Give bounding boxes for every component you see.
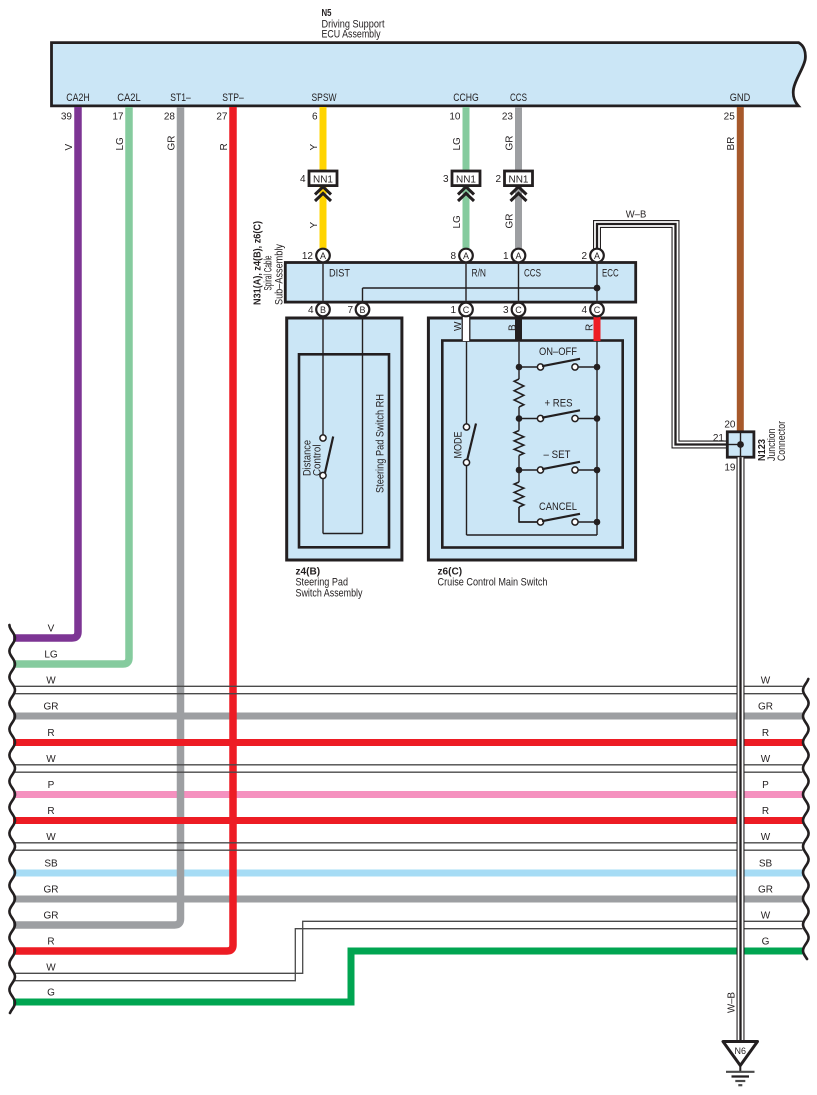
svg-text:8: 8 [450,251,456,262]
svg-text:4: 4 [300,174,306,185]
svg-text:Switch Assembly: Switch Assembly [296,588,363,600]
svg-text:2: 2 [581,251,587,262]
svg-text:N5: N5 [322,7,332,19]
svg-text:W: W [761,832,771,843]
svg-text:W: W [761,754,771,765]
svg-text:NN1: NN1 [313,174,333,185]
svg-text:W: W [46,963,56,974]
svg-text:W: W [46,754,56,765]
svg-text:1: 1 [503,251,509,262]
svg-text:GR: GR [44,911,59,922]
svg-text:LG: LG [452,215,463,229]
svg-text:W: W [46,832,56,843]
svg-text:25: 25 [724,112,736,123]
svg-text:NN1: NN1 [509,174,529,185]
svg-text:W: W [453,321,464,331]
svg-text:21: 21 [713,433,725,444]
svg-text:CANCEL: CANCEL [539,501,577,513]
svg-text:ECC: ECC [602,268,619,280]
svg-text:4: 4 [308,305,314,316]
svg-text:Control: Control [311,445,323,477]
svg-text:ST1–: ST1– [170,92,191,104]
svg-text:39: 39 [61,112,73,123]
svg-text:P: P [762,780,769,791]
svg-text:R: R [219,143,230,150]
svg-text:Y: Y [309,144,320,151]
svg-text:W: W [46,676,56,687]
svg-text:B: B [320,305,326,315]
svg-text:SB: SB [759,859,773,870]
svg-text:GR: GR [44,885,59,896]
svg-text:P: P [48,780,55,791]
svg-text:28: 28 [164,112,176,123]
svg-text:GR: GR [758,885,773,896]
svg-text:6: 6 [312,112,318,123]
svg-text:LG: LG [44,650,58,661]
svg-text:Cruise Control Main Switch: Cruise Control Main Switch [438,577,548,589]
svg-text:N6: N6 [735,1046,747,1057]
svg-text:R: R [47,937,54,948]
svg-text:R: R [762,728,769,739]
svg-text:+ RES: + RES [545,398,573,410]
svg-text:C: C [463,305,470,315]
svg-text:STP–: STP– [222,92,244,104]
svg-text:BR: BR [726,137,737,151]
svg-text:A: A [320,251,326,261]
svg-text:CCS: CCS [510,92,527,104]
svg-text:CA2L: CA2L [117,92,141,104]
svg-text:W: W [761,911,771,922]
svg-text:23: 23 [502,112,514,123]
svg-text:R: R [47,806,54,817]
svg-text:17: 17 [112,112,124,123]
svg-text:R/N: R/N [472,268,487,280]
svg-text:A: A [515,251,521,261]
svg-text:7: 7 [347,305,353,316]
svg-text:3: 3 [503,305,509,316]
svg-text:W–B: W–B [626,210,647,221]
svg-text:ON–OFF: ON–OFF [539,346,577,358]
svg-text:B: B [508,324,519,331]
svg-text:GR: GR [44,702,59,713]
svg-text:Sub–Assembly: Sub–Assembly [274,244,286,305]
svg-text:NN1: NN1 [456,174,476,185]
svg-text:R: R [47,728,54,739]
svg-text:V: V [48,624,55,635]
svg-text:3: 3 [443,174,449,185]
svg-text:DIST: DIST [329,268,350,280]
svg-text:B: B [359,305,365,315]
svg-text:MODE: MODE [453,432,465,459]
svg-text:19: 19 [724,463,736,474]
svg-text:LG: LG [452,137,463,151]
svg-text:SB: SB [44,859,58,870]
svg-text:Y: Y [309,222,320,229]
svg-text:4: 4 [581,305,587,316]
svg-text:20: 20 [724,420,736,431]
svg-text:CCS: CCS [524,268,541,280]
svg-text:ECU Assembly: ECU Assembly [322,28,381,40]
svg-text:CA2H: CA2H [66,92,90,104]
svg-text:SPSW: SPSW [312,92,337,104]
svg-text:R: R [762,806,769,817]
svg-text:12: 12 [302,251,314,262]
svg-text:GR: GR [505,214,516,229]
svg-text:Steering Pad Switch RH: Steering Pad Switch RH [375,394,387,493]
svg-text:G: G [762,937,770,948]
svg-text:R: R [585,324,596,331]
svg-text:W: W [761,676,771,687]
svg-text:V: V [64,144,75,151]
svg-text:2: 2 [495,174,501,185]
svg-text:GND: GND [730,92,751,104]
svg-text:C: C [515,305,522,315]
svg-text:G: G [47,988,55,999]
svg-text:– SET: – SET [544,449,571,461]
svg-text:A: A [594,251,600,261]
svg-text:CCHG: CCHG [453,92,479,104]
svg-text:1: 1 [450,305,456,316]
svg-text:GR: GR [505,136,516,151]
svg-text:GR: GR [167,136,178,151]
svg-text:LG: LG [115,137,126,151]
svg-text:Connector: Connector [776,421,788,461]
svg-text:27: 27 [216,112,228,123]
svg-text:10: 10 [449,112,461,123]
svg-text:W–B: W–B [727,992,738,1013]
svg-text:C: C [594,305,601,315]
svg-text:A: A [463,251,469,261]
svg-text:GR: GR [758,702,773,713]
